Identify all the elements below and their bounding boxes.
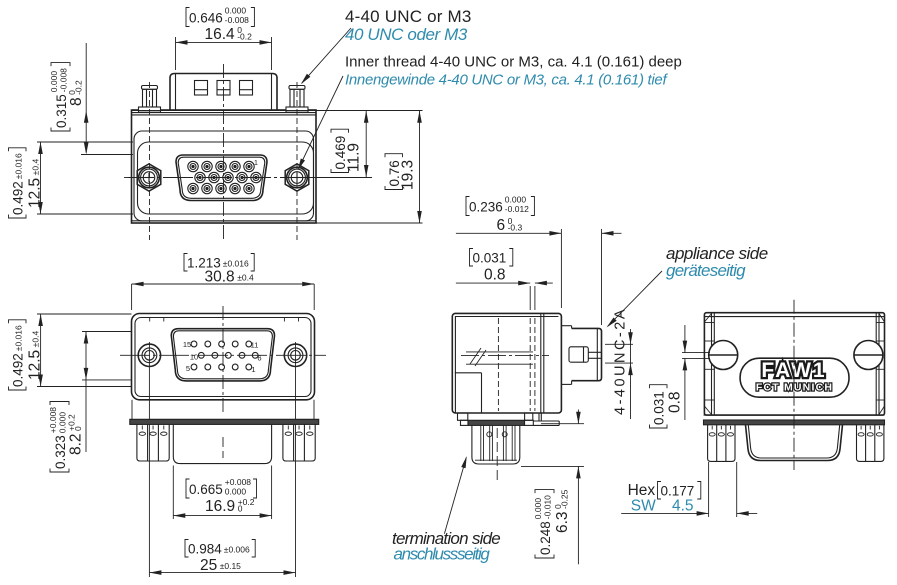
svg-text:0.492: 0.492 [11,353,26,387]
svg-text:4-40 UNC or M3: 4-40 UNC or M3 [345,7,472,26]
svg-text:12.5: 12.5 [27,178,44,208]
svg-text:5: 5 [186,364,190,373]
svg-text:geräteseitig: geräteseitig [666,261,746,280]
svg-text:±0.4: ±0.4 [30,331,40,348]
svg-text:11: 11 [251,341,259,350]
svg-text:-0.008: -0.008 [225,15,249,25]
svg-text:Innengewinde 4-40 UNC or M3, c: Innengewinde 4-40 UNC or M3, ca. 4.1 (0.… [345,72,668,89]
svg-text:0.665: 0.665 [189,482,223,497]
svg-text:SW: SW [631,498,656,515]
svg-text:0.177: 0.177 [661,484,695,499]
svg-text:1: 1 [254,160,258,167]
svg-text:6.3: 6.3 [554,511,571,533]
svg-text:0: 0 [238,504,243,514]
svg-text:11.9: 11.9 [346,143,363,172]
svg-text:4-40UNC-2A: 4-40UNC-2A [613,307,629,415]
svg-text:19.3: 19.3 [400,160,417,190]
svg-text:0.8: 0.8 [667,391,684,413]
svg-text:8.2: 8.2 [68,433,85,455]
svg-text:0.031: 0.031 [652,391,667,425]
svg-text:0.984: 0.984 [188,542,222,557]
svg-text:0.031: 0.031 [473,251,507,266]
svg-text:Hex: Hex [628,482,656,499]
svg-text:0.000: 0.000 [225,486,247,496]
svg-text:8: 8 [68,97,85,106]
svg-text:0.8: 0.8 [484,267,506,284]
svg-text:0.646: 0.646 [189,11,223,26]
svg-text:-0.2: -0.2 [237,32,252,42]
svg-text:±0.016: ±0.016 [13,325,23,351]
svg-text:25: 25 [200,557,217,574]
svg-text:-0.012: -0.012 [505,204,529,214]
svg-text:30.8: 30.8 [205,269,235,286]
svg-text:±0.4: ±0.4 [237,272,254,282]
svg-text:-0.25: -0.25 [560,489,570,509]
svg-text:-0.3: -0.3 [508,223,523,233]
svg-text:0: 0 [73,426,83,431]
svg-text:1: 1 [251,365,255,374]
svg-text:-0.008: -0.008 [58,68,68,92]
svg-text:±0.016: ±0.016 [13,153,23,179]
svg-text:10: 10 [190,353,198,362]
svg-text:FCT MUNICH: FCT MUNICH [756,382,833,394]
svg-text:12.5: 12.5 [27,350,44,380]
svg-text:4.5: 4.5 [672,498,694,515]
svg-text:6: 6 [497,217,506,234]
svg-text:Inner thread 4-40 UNC or M3, c: Inner thread 4-40 UNC or M3, ca. 4.1 (0.… [345,54,682,71]
svg-text:0.248: 0.248 [538,521,553,555]
svg-text:40 UNC oder M3: 40 UNC oder M3 [345,25,468,44]
svg-text:anschlussseitig: anschlussseitig [394,545,491,564]
svg-text:±0.006: ±0.006 [224,544,250,554]
svg-text:0.236: 0.236 [469,200,503,215]
svg-text:15: 15 [183,340,191,349]
svg-text:16.4: 16.4 [205,26,236,43]
svg-text:-0.2: -0.2 [74,80,84,95]
svg-text:±0.15: ±0.15 [220,561,241,571]
svg-text:0.492: 0.492 [11,181,26,215]
svg-text:0.315: 0.315 [54,94,69,128]
svg-text:16.9: 16.9 [205,498,235,515]
svg-text:0.323: 0.323 [53,435,68,469]
svg-text:±0.4: ±0.4 [30,159,40,176]
svg-text:±0.016: ±0.016 [223,258,249,268]
svg-text:-0.010: -0.010 [542,495,552,519]
